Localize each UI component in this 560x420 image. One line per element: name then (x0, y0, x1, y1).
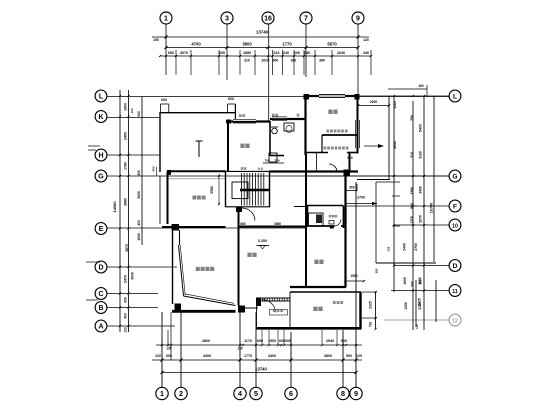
dining SW corner blob (172, 224, 180, 231)
terrace right dim chain 2325 730 (375, 292, 377, 329)
svg-text:400: 400 (152, 166, 156, 171)
svg-text:9: 9 (354, 389, 358, 398)
top-right bedroom left wall (304, 96, 306, 155)
block left wall (227, 121, 229, 171)
svg-text:3100: 3100 (419, 151, 423, 159)
svg-text:E: E (99, 226, 104, 233)
svg-text:440: 440 (363, 51, 369, 55)
svg-text:1: 1 (160, 389, 164, 398)
stair inner rail box (232, 182, 248, 199)
right axis lines (358, 95, 449, 97)
svg-text:4940: 4940 (393, 141, 397, 149)
svg-text:2400: 2400 (403, 243, 407, 251)
terrace left boundary (289, 292, 291, 329)
svg-text:9: 9 (356, 16, 360, 23)
svg-text:400: 400 (137, 170, 141, 176)
dim 900 (346, 190, 357, 192)
svg-text:2580: 2580 (210, 186, 214, 194)
svg-text:120: 120 (363, 38, 369, 42)
extra ext lines near axis 1-2 (170, 312, 172, 360)
right rooms left wall (305, 154, 307, 287)
svg-text:310: 310 (244, 59, 250, 63)
svg-text:160: 160 (418, 84, 424, 88)
svg-text:700: 700 (264, 159, 269, 163)
svg-text:400: 400 (124, 313, 128, 319)
svg-text:3400: 3400 (268, 354, 276, 358)
stair treads (240, 173, 242, 206)
svg-text:400: 400 (137, 220, 141, 226)
axis D strip line (376, 262, 436, 264)
svg-text:600: 600 (341, 339, 347, 343)
svg-text:2: 2 (179, 389, 183, 398)
living SE pier (238, 306, 245, 313)
svg-text:1850: 1850 (243, 51, 251, 55)
svg-text:4800: 4800 (202, 339, 210, 343)
svg-text:2700: 2700 (357, 196, 365, 200)
right dimension chain lines (393, 96, 395, 292)
svg-text:700: 700 (410, 115, 414, 121)
axis E wall right segment (239, 226, 307, 228)
svg-text:L: L (99, 94, 104, 101)
terrace level text (333, 301, 336, 304)
patio window hatch top (261, 297, 290, 299)
svg-text:150: 150 (387, 246, 391, 251)
svg-text:3400: 3400 (419, 186, 423, 194)
svg-text:860: 860 (240, 222, 246, 226)
svg-text:5400: 5400 (419, 124, 423, 132)
living SW pier (175, 304, 182, 311)
right top small dim 160 (388, 88, 427, 90)
svg-text:12: 12 (452, 319, 458, 325)
svg-text:2470: 2470 (124, 275, 128, 283)
svg-text:D: D (453, 263, 458, 270)
top axis bubbles 1,3,16,7,9 (160, 12, 172, 24)
inner wall stubs (305, 152, 328, 154)
svg-text:600: 600 (294, 51, 300, 55)
svg-text:16700: 16700 (430, 203, 434, 214)
svg-text:120: 120 (124, 327, 128, 333)
svg-text:1380: 1380 (410, 187, 414, 195)
svg-text:600: 600 (219, 51, 225, 55)
right strip vertical line (375, 182, 377, 263)
tiny window labels above (239, 114, 242, 117)
svg-text:600: 600 (166, 354, 172, 358)
living room label (196, 267, 200, 271)
svg-text:600: 600 (228, 97, 234, 101)
terrace left wall (159, 112, 161, 172)
svg-text:800: 800 (410, 203, 414, 209)
top axis extension lines (165, 25, 167, 76)
svg-text:900: 900 (346, 354, 352, 358)
svg-text:F: F (453, 204, 457, 211)
svg-text:1900: 1900 (124, 103, 128, 111)
stair left wall (225, 172, 227, 207)
svg-text:310: 310 (410, 152, 414, 158)
tiny text row 1 (326, 130, 329, 133)
east bedroom bottom wall (290, 286, 346, 288)
bath2 left wall (307, 206, 309, 227)
bath2 right wall (343, 206, 345, 229)
svg-text:2940: 2940 (326, 339, 334, 343)
patio door arc (262, 300, 276, 313)
svg-text:3000: 3000 (137, 191, 141, 199)
svg-text:6: 6 (289, 389, 293, 398)
door arc upper (329, 164, 337, 172)
svg-text:1160: 1160 (393, 101, 397, 109)
left axis lines (108, 96, 450, 98)
svg-text:4700: 4700 (191, 42, 201, 47)
bath sink box (269, 153, 277, 162)
top-right bedroom label (328, 110, 332, 114)
shaft thin line (316, 153, 318, 172)
top dimension total line 13740 (152, 36, 369, 38)
door leaf blob (330, 226, 334, 229)
svg-text:3880: 3880 (124, 198, 128, 206)
svg-text:4300: 4300 (203, 354, 211, 358)
svg-text:3080: 3080 (274, 222, 281, 226)
axis E wall left segment (162, 226, 226, 228)
svg-text:D: D (98, 265, 103, 272)
bedroom NW pier (304, 94, 310, 100)
svg-text:1250: 1250 (404, 302, 408, 310)
svg-text:640: 640 (283, 51, 289, 55)
bottom axis bubbles 1 2 4 5 6 8 9 (156, 387, 168, 399)
terrace small text 2F (273, 309, 276, 312)
svg-text:3040: 3040 (131, 272, 135, 280)
svg-text:8: 8 (341, 389, 345, 398)
living diagonal wall steep (179, 245, 184, 296)
svg-text:120: 120 (415, 324, 419, 329)
svg-text:600: 600 (273, 59, 279, 63)
side yard outer line (388, 96, 390, 180)
svg-text:640: 640 (304, 51, 310, 55)
dining room label (193, 196, 197, 200)
center dividing wall (238, 207, 240, 306)
svg-text:L: L (453, 94, 457, 101)
left axis bubbles L K H G E D C B A (95, 90, 107, 102)
svg-text:3870: 3870 (125, 244, 129, 252)
svg-text:1000: 1000 (137, 233, 141, 241)
wall to bottom patio piece (245, 307, 258, 309)
east bedroom right wall (344, 171, 346, 287)
stair bottom line (226, 206, 271, 208)
svg-text:600: 600 (168, 51, 174, 55)
tiny text row 2 (324, 147, 327, 150)
bath toilet (284, 123, 294, 131)
bedroom-bath divider wall (269, 121, 271, 156)
svg-text:1020: 1020 (261, 59, 269, 63)
left small outside marks (88, 145, 100, 147)
block top wall with windows (226, 120, 270, 122)
svg-text:2640: 2640 (337, 51, 345, 55)
side yard bottom line (357, 179, 390, 181)
svg-text:600: 600 (137, 111, 141, 117)
svg-text:1500: 1500 (350, 274, 357, 278)
living left inner wall (179, 230, 181, 245)
right strip top line (376, 181, 400, 183)
bottom dim line 2 (152, 359, 362, 361)
terrace bottom wall (256, 327, 362, 330)
svg-text:H: H (98, 153, 103, 160)
svg-text:16: 16 (264, 16, 272, 23)
svg-text:4: 4 (238, 389, 242, 398)
terrace 600 dim brackets (161, 103, 169, 105)
svg-text:1770: 1770 (244, 354, 252, 358)
top-right bedroom divider wall (322, 134, 358, 136)
cross wall right thick segment (269, 170, 358, 172)
svg-text:300: 300 (419, 279, 423, 285)
dining left outer thin line (159, 176, 161, 224)
svg-text:600: 600 (285, 339, 291, 343)
terrace top wall (160, 112, 236, 114)
svg-text:2700: 2700 (414, 243, 418, 251)
top-right bedroom top wall with window (304, 95, 358, 97)
svg-text:600: 600 (124, 297, 128, 303)
svg-text:7: 7 (304, 16, 308, 23)
svg-text:1770: 1770 (282, 42, 292, 47)
svg-text:1600: 1600 (403, 277, 407, 285)
center room label (247, 253, 251, 257)
patio hatch pier (256, 298, 261, 307)
svg-text:150: 150 (237, 347, 243, 351)
bath round fixture (272, 128, 278, 134)
svg-text:G: G (452, 174, 457, 181)
svg-text:380: 380 (291, 59, 297, 63)
terrace right wall (234, 104, 236, 121)
bottom dim fine line (156, 344, 362, 346)
top dimension line 3 fine chain (160, 55, 371, 57)
svg-text:150: 150 (375, 268, 379, 273)
bedroom NE pier (355, 94, 360, 100)
svg-text:120: 120 (155, 354, 161, 358)
svg-text:11: 11 (452, 289, 458, 295)
svg-text:5: 5 (254, 389, 258, 398)
svg-text:900: 900 (349, 186, 355, 190)
stair center rail (240, 189, 269, 192)
bath bottom wall (270, 155, 284, 157)
svg-text:3.300: 3.300 (258, 239, 268, 243)
living left outer wall (172, 230, 174, 304)
svg-text:2450: 2450 (124, 132, 128, 140)
svg-text:150: 150 (153, 38, 159, 42)
top extension ticks down (175, 50, 177, 75)
svg-text:3800: 3800 (242, 42, 252, 47)
east bedroom label (314, 260, 318, 264)
bath2 toilet oval (329, 221, 334, 225)
svg-text:100: 100 (130, 108, 134, 113)
bath2 top wall (307, 205, 343, 207)
living bottom wall (172, 310, 236, 313)
right axis bubbles L G F 10 D 11 12 (449, 90, 461, 102)
svg-text:2070: 2070 (419, 215, 423, 223)
side yard arrow (364, 145, 381, 147)
cross wall corner pier (167, 170, 171, 175)
cross wall stair segment (226, 170, 270, 172)
svg-text:3: 3 (225, 16, 229, 23)
svg-text:750: 750 (274, 159, 279, 163)
cross wall left thick segment (167, 170, 226, 172)
dining left exterior wall (167, 172, 169, 224)
svg-text:1780: 1780 (124, 162, 128, 170)
svg-text:610: 610 (274, 51, 280, 55)
svg-text:680: 680 (347, 156, 353, 160)
svg-text:730: 730 (369, 322, 373, 328)
svg-text:10: 10 (452, 224, 458, 230)
terrace level T mark (198, 141, 200, 157)
terrace label (313, 307, 317, 311)
dining inner face line (168, 178, 226, 180)
svg-text:3800: 3800 (324, 354, 332, 358)
svg-text:380: 380 (319, 59, 325, 63)
svg-text:G: G (98, 174, 104, 181)
terrace bottom extension ticks (261, 330, 263, 344)
svg-text:600: 600 (161, 98, 167, 102)
far right bottom dim lines (415, 280, 417, 327)
terrace top wall (290, 291, 361, 293)
living diagonal wall shallow (184, 296, 236, 306)
top-right bedroom right exterior wall (357, 96, 359, 154)
svg-text:14080: 14080 (112, 201, 117, 213)
stair landing square (236, 207, 242, 213)
stair door arc (242, 208, 255, 221)
patio label box (270, 310, 288, 316)
stair top tiny label (241, 167, 244, 170)
svg-text:2200: 2200 (370, 100, 378, 104)
bath2 shower box with figure (309, 213, 324, 226)
block NW pier (226, 120, 231, 124)
bottom total dim 13740 (162, 372, 356, 374)
terrace right wall (359, 292, 361, 329)
right wall lower jog (349, 153, 351, 171)
svg-text:2325: 2325 (369, 301, 373, 309)
svg-text:3070: 3070 (180, 51, 188, 55)
small ticks right strip (392, 195, 400, 197)
svg-text:K: K (98, 114, 103, 121)
bedroom tiny label near top (329, 215, 332, 218)
svg-text:13740: 13740 (255, 367, 267, 372)
svg-text:120: 120 (356, 354, 362, 358)
svg-text:150: 150 (166, 347, 172, 351)
svg-text:B: B (98, 305, 103, 312)
stair right wall (269, 172, 271, 207)
mid-top bedroom label (240, 144, 244, 148)
door arc bath2 (335, 220, 342, 227)
top dimension line 2 (166, 47, 358, 49)
svg-text:A: A (98, 324, 103, 331)
patio left edge (256, 298, 258, 329)
bottom axis extension lines (161, 312, 163, 387)
svg-text:1: 1 (164, 16, 168, 23)
left dimension chain lines (119, 90, 121, 332)
svg-text:1170: 1170 (244, 339, 252, 343)
svg-text:C: C (98, 291, 103, 298)
svg-text:5870: 5870 (327, 42, 337, 47)
svg-text:13740: 13740 (256, 30, 269, 35)
bath small dims 700 750 (263, 162, 284, 164)
svg-text:1720: 1720 (410, 216, 414, 224)
bath2 bottom wall with door gap (307, 225, 335, 227)
svg-text:300: 300 (411, 281, 415, 287)
svg-text:2425: 2425 (418, 298, 422, 306)
window marks on right wall (355, 120, 357, 148)
